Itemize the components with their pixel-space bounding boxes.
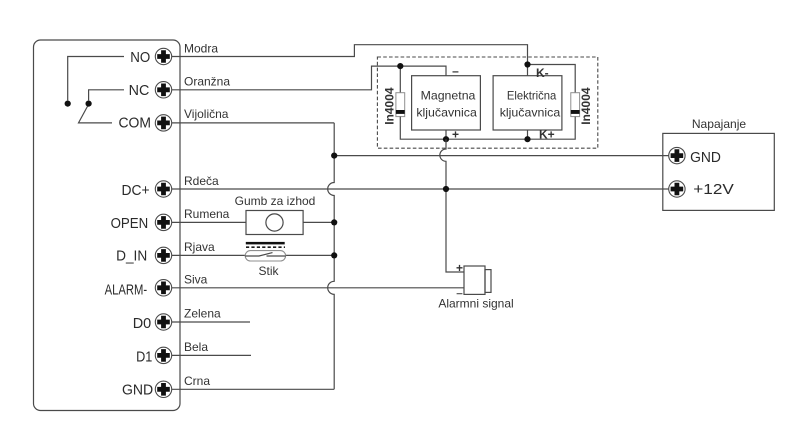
svg-text:Električna: Električna xyxy=(507,89,557,103)
svg-text:Stik: Stik xyxy=(258,264,279,278)
svg-text:GND: GND xyxy=(122,381,153,398)
svg-text:+: + xyxy=(452,127,459,141)
svg-text:Gumb za izhod: Gumb za izhod xyxy=(235,194,316,208)
svg-text:In4004: In4004 xyxy=(579,87,593,125)
svg-text:+: + xyxy=(456,261,463,275)
svg-text:D0: D0 xyxy=(133,315,152,332)
svg-text:Bela: Bela xyxy=(184,340,208,354)
svg-text:+12V: +12V xyxy=(693,181,734,198)
svg-text:ključavnica: ključavnica xyxy=(500,105,561,119)
svg-text:ključavnica: ključavnica xyxy=(416,105,477,119)
svg-text:ALARM-: ALARM- xyxy=(105,281,148,298)
svg-text:Alarmni signal: Alarmni signal xyxy=(438,297,513,311)
svg-text:OPEN: OPEN xyxy=(111,215,149,232)
svg-text:In4004: In4004 xyxy=(383,87,397,125)
svg-text:K+: K+ xyxy=(539,127,555,141)
svg-text:Modra: Modra xyxy=(184,41,218,55)
svg-text:Rdeča: Rdeča xyxy=(184,174,219,188)
svg-text:DC+: DC+ xyxy=(122,182,150,199)
svg-text:Rjava: Rjava xyxy=(184,240,215,254)
svg-text:Vijolična: Vijolična xyxy=(184,107,229,121)
svg-text:Zelena: Zelena xyxy=(184,307,221,321)
svg-text:Crna: Crna xyxy=(184,374,210,388)
svg-text:Magnetna: Magnetna xyxy=(421,89,476,103)
svg-text:COM: COM xyxy=(119,114,152,131)
svg-text:Napajanje: Napajanje xyxy=(692,117,747,131)
svg-text:K-: K- xyxy=(536,66,549,80)
svg-text:NO: NO xyxy=(130,49,150,66)
svg-text:Rumena: Rumena xyxy=(184,207,230,221)
svg-text:D1: D1 xyxy=(136,349,152,366)
svg-text:D_IN: D_IN xyxy=(116,247,147,264)
svg-text:GND: GND xyxy=(690,149,721,166)
svg-text:Siva: Siva xyxy=(184,272,208,286)
svg-text:–: – xyxy=(452,64,459,78)
svg-text:Oranžna: Oranžna xyxy=(184,75,230,89)
svg-text:NC: NC xyxy=(129,82,150,99)
